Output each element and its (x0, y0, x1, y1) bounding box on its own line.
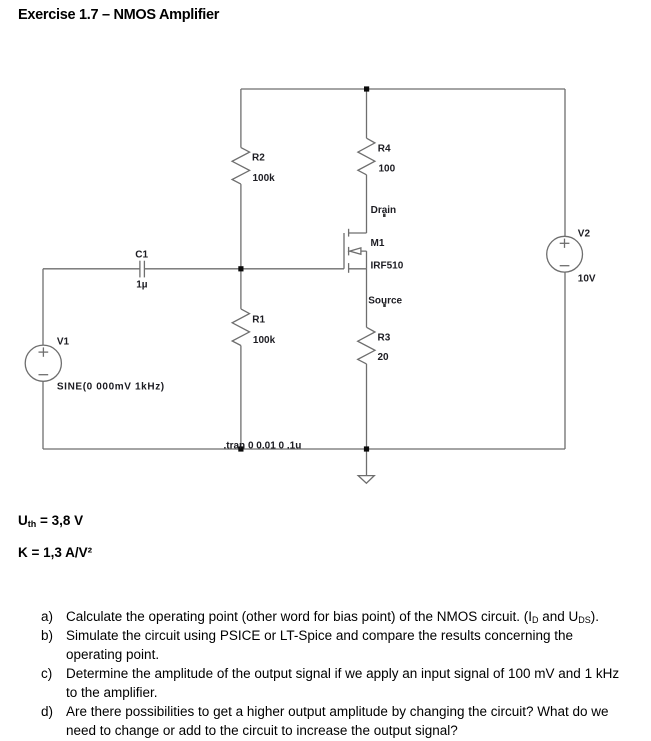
transistor M1 (344, 229, 367, 273)
wire left rail top (42, 269, 44, 345)
wire right rail bottom (564, 272, 566, 449)
resistor R1 (232, 309, 249, 346)
wire V1 to C1 (43, 268, 140, 270)
svg-text:V2: V2 (578, 228, 591, 239)
svg-text:.tran 0 0.01 0 .1u: .tran 0 0.01 0 .1u (224, 441, 302, 452)
resistor R4 (358, 138, 375, 175)
node Source label anchor (383, 304, 386, 307)
svg-text:V1: V1 (57, 336, 70, 347)
node top junction (364, 86, 369, 91)
wire right rail top (564, 89, 566, 236)
svg-text:C1: C1 (135, 250, 148, 261)
resistor R3 (358, 327, 375, 364)
wire R3 to bottom rail (366, 364, 368, 449)
wire gate node to R1 (240, 269, 242, 309)
wire R1 to bottom rail (240, 346, 242, 450)
voltage source V2 (547, 236, 583, 272)
wire top rail (241, 88, 565, 90)
wire top rail to R4 (366, 89, 368, 138)
wire top rail to R2 (240, 89, 242, 148)
ground (358, 476, 374, 484)
node gate junction (238, 266, 243, 271)
svg-text:R2: R2 (252, 153, 265, 164)
wire C1 to gate (144, 268, 344, 270)
svg-text:Source: Source (368, 295, 402, 306)
wire R4 to drain (366, 175, 368, 233)
node bottom ground junction (364, 446, 369, 451)
svg-text:R1: R1 (252, 314, 265, 325)
wire ground stub (366, 449, 368, 476)
voltage source V1 (25, 345, 61, 381)
svg-text:20: 20 (378, 352, 390, 363)
wire left rail bottom (42, 381, 44, 449)
wire bottom rail (43, 448, 565, 450)
capacitor C1 (140, 261, 145, 278)
node Drain label anchor (383, 214, 386, 217)
svg-text:100k: 100k (253, 335, 276, 346)
svg-text:100k: 100k (253, 173, 276, 184)
svg-text:M1: M1 (371, 238, 385, 249)
svg-text:1µ: 1µ (136, 280, 148, 291)
svg-text:10V: 10V (578, 274, 596, 285)
svg-text:100: 100 (379, 164, 396, 175)
wire R2 to gate node (240, 184, 242, 269)
svg-text:IRF510: IRF510 (371, 260, 404, 271)
svg-text:SINE(0 000mV 1kHz): SINE(0 000mV 1kHz) (57, 381, 165, 392)
svg-text:R4: R4 (378, 144, 391, 155)
wire source to R3 (366, 269, 368, 328)
node bottom R1 junction (238, 446, 243, 451)
svg-text:Drain: Drain (371, 205, 397, 216)
resistor R2 (232, 148, 250, 185)
svg-text:R3: R3 (378, 332, 391, 343)
